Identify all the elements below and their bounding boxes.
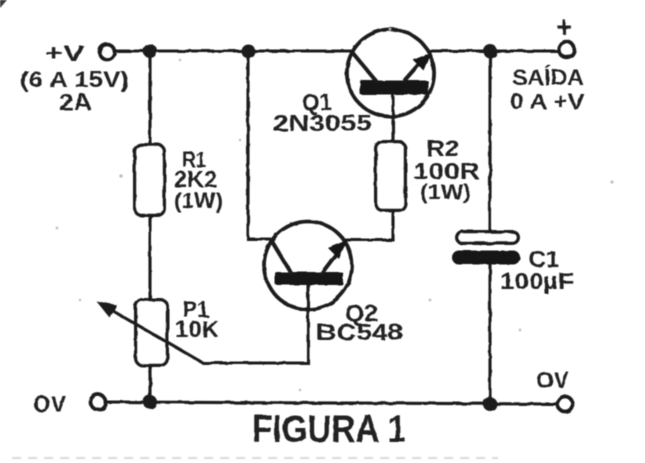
svg-text:10K: 10K xyxy=(175,316,219,342)
svg-text:BC548: BC548 xyxy=(316,319,403,345)
svg-text:(1W): (1W) xyxy=(420,181,471,204)
svg-text:OV: OV xyxy=(33,391,67,417)
svg-text:+V: +V xyxy=(45,41,84,66)
svg-text:100µF: 100µF xyxy=(500,268,574,294)
svg-text:SAÍDA: SAÍDA xyxy=(512,65,584,90)
svg-text:+: + xyxy=(556,12,572,44)
svg-text:(1W): (1W) xyxy=(174,188,223,213)
svg-text:2N3055: 2N3055 xyxy=(273,110,372,136)
svg-text:FIGURA 1: FIGURA 1 xyxy=(252,408,406,451)
svg-text:OV: OV xyxy=(536,367,570,393)
svg-text:0 A +V: 0 A +V xyxy=(510,89,584,114)
svg-text:2A: 2A xyxy=(59,89,92,115)
